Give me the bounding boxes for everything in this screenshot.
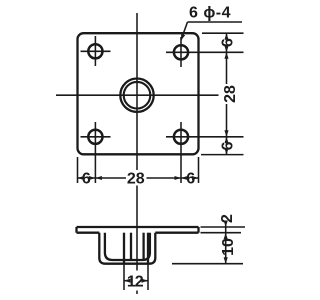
svg-text:6: 6 <box>186 170 195 187</box>
svg-text:28: 28 <box>127 170 145 187</box>
svg-text:6 ϕ-4: 6 ϕ-4 <box>189 4 231 21</box>
svg-text:6: 6 <box>219 141 236 150</box>
svg-text:28: 28 <box>222 85 239 103</box>
svg-text:2: 2 <box>219 214 236 223</box>
svg-text:12: 12 <box>127 274 144 291</box>
svg-text:6: 6 <box>82 170 91 187</box>
svg-text:10: 10 <box>220 238 237 256</box>
svg-text:6: 6 <box>219 38 236 47</box>
